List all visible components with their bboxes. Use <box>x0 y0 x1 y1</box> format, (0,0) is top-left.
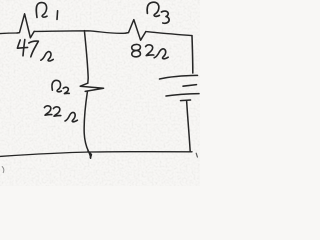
wire top-right <box>146 32 192 36</box>
wire bottom <box>0 152 192 157</box>
battery B1 plate long top <box>160 75 198 79</box>
label R1 subscript 1 <box>56 11 59 20</box>
label R1 <box>36 3 47 18</box>
battery B1 plate short upper <box>183 85 197 87</box>
stray mark bottom-left <box>2 167 4 173</box>
resistor R2 <box>80 83 103 91</box>
label R3 subscript 3 <box>161 11 169 23</box>
resistor R3 <box>125 20 146 41</box>
wire middle branch upper <box>84 31 88 84</box>
value 22 digit 2 first <box>44 106 51 115</box>
battery B1 plate short lower <box>181 99 191 102</box>
tick mark bottom-right <box>196 153 197 157</box>
label R2 <box>52 80 61 91</box>
wire middle branch lower <box>84 92 90 159</box>
value 47 digit 4 <box>17 40 27 56</box>
wire top-left <box>0 32 17 35</box>
battery B1 plate long lower <box>166 94 199 96</box>
resistor R1 <box>17 14 34 38</box>
value 22 digit 2 second <box>53 107 60 116</box>
value 22 ohm <box>65 112 77 121</box>
value 82 digit 8 <box>132 44 141 56</box>
value 82 ohm <box>154 49 168 59</box>
junction blob <box>88 151 91 158</box>
value 47 digit 7 <box>29 41 39 57</box>
wire top-middle <box>34 31 125 34</box>
wire battery stem <box>187 101 191 152</box>
value 47 ohm <box>41 52 53 61</box>
label R2 subscript 2 <box>63 87 69 93</box>
label R3 <box>147 2 159 16</box>
value 82 digit 2 <box>146 45 154 56</box>
wire right drop <box>191 36 194 73</box>
